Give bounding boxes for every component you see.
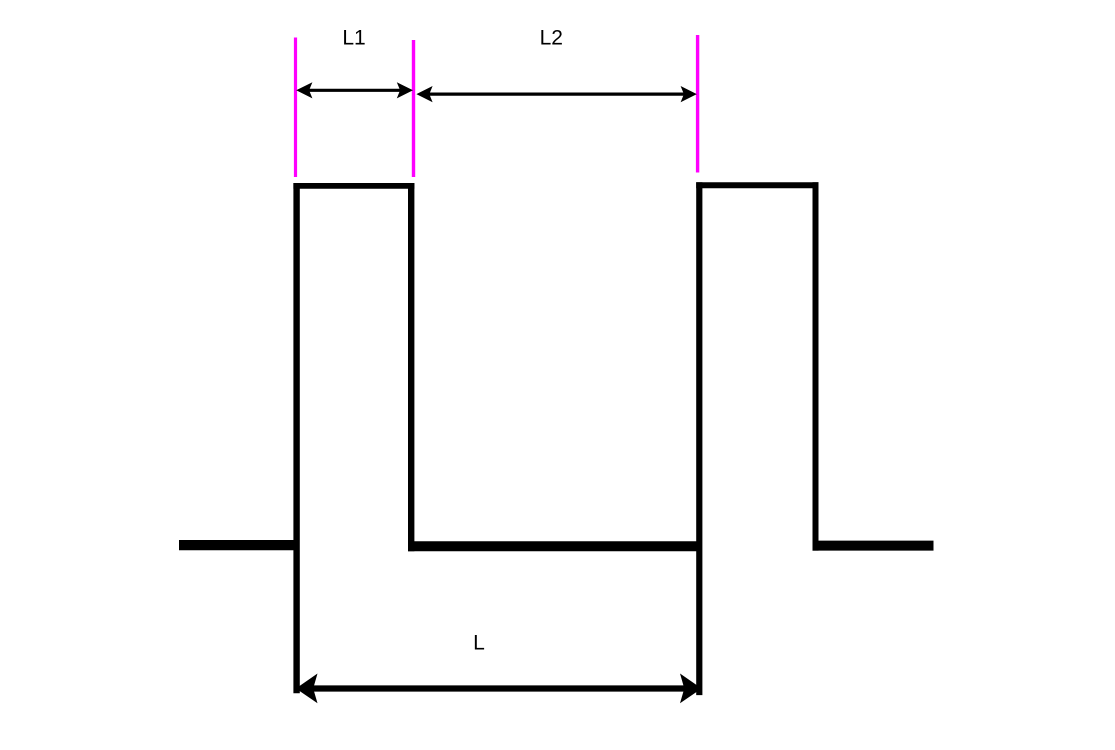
dimension arrow L1 shaft xyxy=(307,89,402,92)
dimension arrow L2 right head xyxy=(681,86,697,102)
dimension arrow L right head xyxy=(680,674,702,704)
dimension arrow L1 left head xyxy=(296,82,312,98)
waveform pulse 2 rising edge + right extension line down to L arrow xyxy=(696,182,702,695)
waveform baseline right segment xyxy=(813,541,934,551)
svg-text:L1: L1 xyxy=(342,27,365,50)
waveform pulse 1 top xyxy=(293,183,414,189)
magenta marker line 2 (right edge of pulse 1) xyxy=(412,40,415,177)
dimension arrow L1 right head xyxy=(397,82,413,98)
magenta marker line 1 (left edge of pulse 1) xyxy=(294,38,297,178)
dimension arrow L2 left head xyxy=(416,86,432,102)
waveform baseline left segment xyxy=(179,540,297,550)
waveform pulse 1 falling edge xyxy=(408,183,414,551)
svg-text:L2: L2 xyxy=(540,27,563,50)
waveform pulse 1 rising edge + left extension line down to L arrow xyxy=(293,183,299,693)
waveform baseline middle segment xyxy=(408,541,698,551)
waveform pulse 2 top xyxy=(696,182,818,188)
magenta marker line 3 (left edge of pulse 2) xyxy=(696,35,699,173)
waveform pulse 2 falling edge xyxy=(813,182,819,550)
svg-text:L: L xyxy=(473,632,485,655)
dimension arrow L left head xyxy=(296,674,318,704)
dimension arrow L shaft xyxy=(310,685,688,691)
dimension arrow L2 shaft xyxy=(427,92,686,95)
